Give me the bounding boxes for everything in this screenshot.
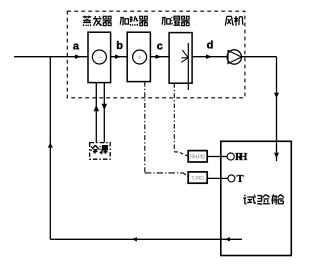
label 加湿器 (humidifier)	[162, 16, 190, 25]
svg-text:b: b	[116, 40, 123, 52]
supply arrow inside chamber	[274, 153, 279, 159]
return riser up arrow	[48, 143, 53, 148]
RH sensor lead	[207, 156, 227, 158]
label 蒸发器 (evaporator)	[83, 16, 112, 26]
label 冷源 (cold source)	[91, 145, 109, 154]
cold source dash-dot box	[90, 143, 111, 160]
RH-PID controller box	[188, 151, 207, 162]
label 风机 (fan)	[225, 16, 243, 26]
control dash-dot line heater to T-PID	[144, 82, 146, 173]
return arrow mid-bottom	[132, 237, 137, 241]
humidifier steam pipe	[187, 43, 189, 90]
evaporator coil circle with minus	[92, 50, 106, 64]
test chamber box	[221, 141, 291, 255]
fan impeller triangle	[228, 51, 241, 64]
return riser (left)	[49, 57, 51, 240]
label 加热器 (heater)	[120, 16, 148, 26]
T-PID controller box	[188, 172, 207, 183]
svg-text:RH: RH	[235, 152, 247, 163]
svg-text:T-PID: T-PID	[191, 176, 204, 182]
svg-text:T: T	[237, 174, 244, 185]
main supply air duct line	[14, 56, 88, 58]
fan circle	[227, 50, 241, 64]
svg-text:d: d	[207, 39, 214, 51]
down arrow on right cold line	[102, 104, 108, 110]
svg-text:c: c	[157, 41, 163, 53]
humidifier spray arrow	[181, 57, 188, 59]
label 试验舱 (test chamber)	[243, 195, 284, 205]
svg-text:RH-PID: RH-PID	[190, 155, 206, 161]
bottom return line	[50, 238, 242, 240]
T sensor lead	[207, 177, 228, 179]
T sensor circle	[228, 175, 235, 182]
supply arrow above chamber	[274, 93, 279, 99]
chilled/heating water lines to cold source	[95, 83, 97, 143]
svg-text:a: a	[73, 41, 80, 53]
heater coil circle with plus	[133, 50, 147, 64]
return arrow at chamber exit	[225, 237, 230, 241]
up arrow on left cold line	[94, 105, 100, 111]
heater box	[127, 32, 150, 81]
supply drop line to chamber	[276, 57, 278, 161]
AHU conditioning section dashed boundary	[67, 11, 245, 98]
control dashed line humidifier to RH-PID	[173, 83, 175, 151]
humidifier box	[169, 33, 192, 84]
RH sensor circle	[227, 153, 234, 160]
evaporator box	[88, 32, 111, 82]
